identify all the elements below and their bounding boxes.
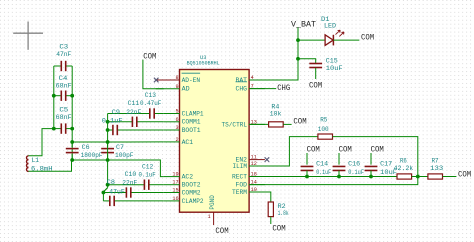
- svg-text:8: 8: [175, 75, 178, 81]
- junction rail A BOOT1: [106, 128, 110, 132]
- inductor L1: [27, 156, 29, 160]
- pin 17 BOOT2: [164, 184, 180, 186]
- svg-text:42.2k: 42.2k: [394, 165, 414, 172]
- pin 2 AC1: [164, 141, 180, 143]
- svg-text:1: 1: [207, 214, 210, 220]
- svg-text:1800pF: 1800pF: [81, 152, 103, 159]
- pin 1 PGND: [213, 212, 215, 225]
- wire rail A: [107, 114, 109, 188]
- svg-text:COM: COM: [215, 226, 228, 236]
- junction C16: [337, 175, 341, 179]
- svg-text:BOOT2: BOOT2: [182, 182, 201, 189]
- junction rail A COMM2: [102, 191, 106, 195]
- svg-text:C4: C4: [59, 75, 68, 82]
- svg-text:COM: COM: [339, 144, 352, 154]
- svg-text:CHG: CHG: [236, 86, 248, 93]
- svg-text:9: 9: [175, 84, 178, 90]
- wire R4 to COM: [283, 123, 291, 125]
- pin 6 COMM1: [164, 121, 180, 123]
- svg-text:C3: C3: [59, 44, 68, 51]
- pin 4 BAT: [249, 79, 265, 81]
- svg-text:47uF: 47uF: [109, 189, 124, 196]
- wire LED to COM: [333, 39, 359, 41]
- svg-text:68nF: 68nF: [56, 114, 72, 121]
- capacitor C4: [54, 95, 61, 97]
- resistor R4: [269, 122, 284, 127]
- wire L1 bottom: [29, 160, 72, 171]
- pin 10 TERM: [249, 191, 265, 193]
- svg-text:BOOT1: BOOT1: [182, 127, 201, 134]
- svg-text:COM: COM: [309, 80, 322, 90]
- svg-text:C11: C11: [128, 100, 140, 107]
- svg-text:2: 2: [175, 137, 178, 143]
- pin 3 BOOT1: [164, 129, 180, 131]
- resistor R7: [428, 174, 443, 179]
- wire right rail C3-C6: [71, 66, 73, 160]
- wire ILIM to R5: [249, 137, 318, 166]
- junction rail A BOOT2: [106, 183, 110, 187]
- svg-text:C5: C5: [59, 107, 68, 114]
- svg-text:3: 3: [175, 125, 178, 131]
- svg-text:22nF: 22nF: [122, 179, 137, 186]
- wire COM to AD: [143, 60, 164, 89]
- svg-text:COM: COM: [371, 144, 384, 154]
- capacitor C8: [103, 200, 110, 202]
- svg-text:LED: LED: [324, 22, 336, 29]
- svg-text:11: 11: [251, 155, 257, 161]
- junction C6 top: [70, 140, 74, 144]
- svg-text:R6: R6: [400, 157, 407, 164]
- svg-text:CLAMP2: CLAMP2: [182, 198, 204, 205]
- resistor R2: [268, 202, 273, 217]
- svg-text:100pF: 100pF: [115, 152, 134, 159]
- pin 19 AC2: [164, 176, 180, 178]
- svg-text:R5: R5: [320, 117, 327, 124]
- svg-text:FOD: FOD: [236, 182, 248, 189]
- svg-text:0.47uF: 0.47uF: [140, 100, 161, 107]
- junction C7 bottom: [106, 158, 110, 162]
- pin 7 CHG: [249, 88, 265, 90]
- pin 14 FOD: [249, 184, 265, 186]
- capacitor C14: [306, 153, 308, 165]
- svg-text:COM: COM: [458, 169, 471, 179]
- cursor crosshair: [13, 32, 43, 34]
- svg-text:6: 6: [175, 117, 178, 123]
- svg-text:10k: 10k: [270, 111, 282, 118]
- svg-text:C15: C15: [326, 57, 338, 64]
- svg-text:AD: AD: [182, 86, 190, 93]
- svg-text:BQ51050BRHL: BQ51050BRHL: [187, 60, 220, 67]
- svg-text:68nF: 68nF: [56, 83, 72, 90]
- wire LED row left: [298, 39, 325, 41]
- junction C6 bottom: [70, 158, 74, 162]
- svg-text:AD-EN: AD-EN: [182, 77, 201, 84]
- pin 15 COMM2: [164, 192, 180, 194]
- capacitor C9: [108, 129, 113, 131]
- pin 12 ILIM: [249, 165, 265, 167]
- capacitor C10: [103, 192, 126, 194]
- svg-text:0.1uF: 0.1uF: [348, 169, 364, 176]
- pin 18 RECT: [249, 176, 265, 178]
- svg-text:R4: R4: [271, 103, 279, 110]
- svg-text:C14: C14: [316, 160, 328, 167]
- junction rail A COMM1: [106, 120, 110, 124]
- wire TS to R4: [249, 123, 269, 125]
- svg-text:100: 100: [318, 126, 329, 133]
- svg-text:5: 5: [175, 109, 178, 115]
- svg-text:ILIM: ILIM: [233, 163, 248, 170]
- svg-text:C12: C12: [142, 164, 153, 171]
- resistor R6: [397, 174, 412, 179]
- svg-text:C9: C9: [112, 109, 120, 116]
- wire R6 to junction: [412, 176, 428, 178]
- svg-text:L1: L1: [32, 157, 40, 164]
- wire line B: [72, 160, 164, 177]
- svg-text:CHG: CHG: [277, 83, 290, 93]
- wire FOD: [249, 177, 418, 185]
- svg-text:133: 133: [430, 165, 443, 172]
- junction C5 right: [70, 127, 74, 131]
- no-connect AD-EN: [154, 78, 159, 83]
- capacitor C17: [370, 153, 372, 165]
- wire R5 to junction: [333, 137, 418, 177]
- junction C5 left: [52, 127, 56, 131]
- svg-text:AC2: AC2: [182, 174, 194, 181]
- op-amp U3 body: [180, 70, 250, 213]
- pin 5 CLAMP1: [164, 113, 180, 115]
- junction C7 top: [106, 140, 110, 144]
- capacitor C12: [108, 184, 145, 186]
- junction C4 right: [70, 94, 74, 98]
- wire CHG: [249, 88, 276, 90]
- svg-text:C6: C6: [82, 144, 90, 151]
- svg-text:0.1uF: 0.1uF: [316, 169, 331, 176]
- svg-text:PGND: PGND: [209, 195, 216, 210]
- svg-text:C17: C17: [380, 160, 392, 167]
- capacitor C16: [338, 153, 340, 165]
- svg-text:AC1: AC1: [182, 139, 194, 146]
- svg-text:COM: COM: [361, 32, 374, 42]
- wire R7 to COM: [443, 176, 457, 178]
- wire R2 to COM: [270, 217, 272, 224]
- svg-text:CLAMP1: CLAMP1: [182, 110, 204, 117]
- svg-text:COM: COM: [293, 117, 306, 127]
- svg-text:15: 15: [172, 188, 178, 194]
- svg-text:COM: COM: [272, 223, 285, 233]
- svg-text:COMM2: COMM2: [182, 189, 201, 196]
- svg-text:C16: C16: [348, 160, 360, 167]
- svg-text:V_BAT: V_BAT: [291, 19, 316, 29]
- svg-text:19: 19: [172, 172, 178, 178]
- svg-text:47nF: 47nF: [56, 51, 71, 58]
- wire RECT rail: [249, 176, 397, 178]
- svg-text:TS/CTRL: TS/CTRL: [222, 121, 248, 128]
- junction C17: [369, 175, 373, 179]
- svg-text:R7: R7: [432, 157, 439, 164]
- capacitor C3: [54, 65, 61, 67]
- pin 16 CLAMP2: [164, 200, 180, 202]
- junction C4 left: [52, 94, 56, 98]
- svg-text:0.1uF: 0.1uF: [139, 172, 156, 179]
- wire left rail C3-C5: [53, 66, 55, 129]
- junction R6 R7: [416, 175, 420, 179]
- svg-text:C7: C7: [116, 144, 124, 151]
- resistor R5: [318, 134, 333, 139]
- capacitor C6: [71, 142, 73, 147]
- pin 11 EN2: [249, 159, 265, 161]
- pin 8 AD-EN: [156, 79, 180, 81]
- svg-text:TERM: TERM: [232, 189, 247, 196]
- capacitor C15: [309, 63, 322, 65]
- wire TERM to R2: [249, 192, 271, 202]
- svg-text:RECT: RECT: [232, 173, 247, 180]
- capacitor C7: [107, 142, 109, 147]
- svg-text:C8: C8: [107, 179, 115, 186]
- no-connect EN2: [265, 157, 270, 162]
- wire C5 to L1: [29, 129, 54, 156]
- svg-text:22nF: 22nF: [126, 109, 141, 116]
- capacitor C13: [108, 113, 150, 115]
- wire BAT to V_BAT rail: [249, 27, 298, 80]
- svg-text:COM: COM: [143, 51, 156, 61]
- svg-text:0.1uF: 0.1uF: [102, 117, 123, 124]
- svg-text:10uF: 10uF: [326, 65, 343, 72]
- svg-text:BAT: BAT: [236, 77, 248, 84]
- svg-text:C10: C10: [125, 171, 137, 178]
- svg-text:16: 16: [172, 196, 178, 202]
- pin 13 TS/CTRL: [249, 123, 265, 125]
- svg-text:C13: C13: [145, 92, 156, 99]
- capacitor C11: [108, 121, 133, 123]
- capacitor C5: [54, 128, 61, 130]
- diode D1 LED: [325, 35, 333, 46]
- pin 9 AD: [156, 88, 180, 90]
- junction C14: [305, 175, 309, 179]
- wire AC1 row: [72, 141, 164, 143]
- svg-text:1.8k: 1.8k: [278, 210, 289, 217]
- svg-text:17: 17: [172, 180, 178, 186]
- svg-text:COMM1: COMM1: [182, 119, 201, 126]
- junction C15 row: [296, 57, 300, 61]
- junction LED row: [296, 38, 300, 42]
- svg-text:COM: COM: [307, 144, 320, 154]
- wire to C15: [298, 59, 316, 63]
